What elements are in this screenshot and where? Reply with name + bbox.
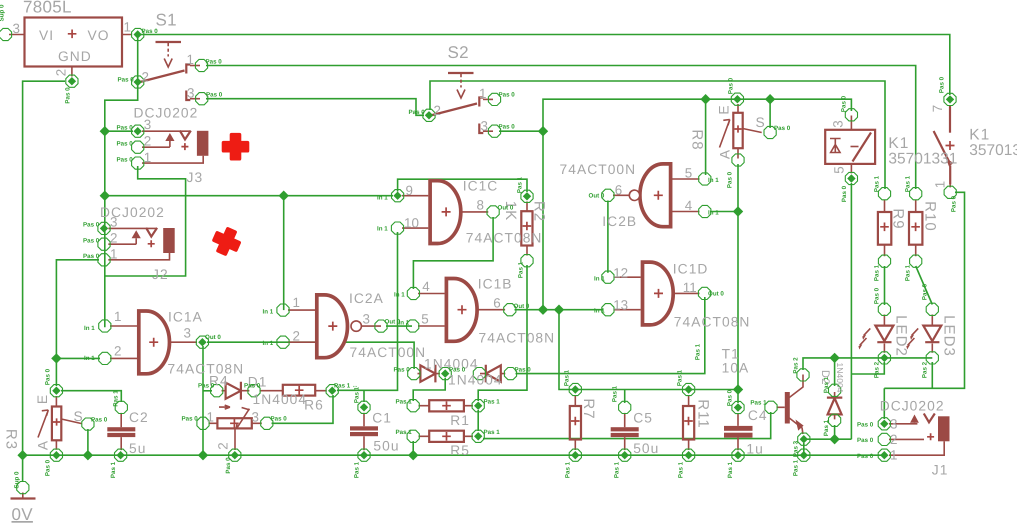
voltage regulator U 7805L box (9, 18, 132, 77)
wire IC1A out to IC2A pin2 and D3 (207, 342, 414, 369)
svg-text:J3: J3 (187, 170, 204, 185)
svg-text:J2: J2 (152, 267, 169, 282)
pad D4 right (504, 368, 516, 380)
relay K1 switch contact (934, 106, 955, 188)
pad LED3 bottom (926, 352, 938, 364)
pad R8 top (731, 93, 743, 105)
wire R8 A pad down to C4 (737, 164, 739, 403)
wire LED2 bottom jog to relay coil column (851, 362, 884, 374)
wire ground rail 0V (23, 454, 885, 456)
svg-text:Pas 0: Pas 0 (922, 283, 929, 300)
pad relay K1 pin5 (845, 172, 857, 184)
svg-text:Pas 1: Pas 1 (518, 261, 525, 278)
pad J1 pin3 (878, 418, 890, 430)
switch S2 (431, 73, 494, 133)
svg-text:Pas 0: Pas 0 (65, 87, 72, 104)
svg-text:3: 3 (831, 120, 846, 127)
svg-text:A: A (36, 440, 51, 450)
svg-text:Pas 1: Pas 1 (564, 369, 571, 386)
svg-text:Pas 0: Pas 0 (857, 437, 874, 444)
svg-text:1: 1 (293, 295, 300, 310)
svg-text:2: 2 (114, 344, 121, 359)
svg-text:In 1: In 1 (84, 325, 95, 332)
svg-text:R3: R3 (3, 429, 20, 450)
svg-text:R2: R2 (531, 201, 548, 222)
svg-text:3: 3 (187, 86, 194, 101)
error cross marker 2 (211, 226, 243, 258)
pad K1 switch pin7 (944, 93, 956, 105)
wire emitter down to rail (803, 443, 805, 455)
svg-text:Out 0: Out 0 (589, 193, 605, 200)
svg-text:Pas 2: Pas 2 (922, 361, 929, 378)
junction R3 E column (51, 353, 61, 363)
svg-text:In 1: In 1 (377, 195, 388, 202)
svg-text:4: 4 (685, 198, 693, 213)
trimmer R3 (38, 396, 82, 450)
pad R4 pin2 (229, 449, 241, 461)
and gate IC1A (110, 311, 197, 374)
diode D4 1N4004 mirrored (480, 365, 505, 383)
svg-text:Pas 1: Pas 1 (677, 369, 684, 386)
svg-text:K1: K1 (888, 135, 909, 152)
pad IC1B in5 (407, 320, 419, 332)
error cross marker 1 (224, 135, 248, 159)
wire drop to C5 top (624, 390, 626, 404)
svg-text:Pas 1: Pas 1 (750, 400, 767, 407)
pad T1 emitter rail (798, 449, 810, 461)
pad S2 pin2 (423, 109, 435, 121)
pad R4 pin3 (261, 417, 273, 429)
wire C1 top tee (363, 390, 365, 402)
pad S2 pin3 (488, 125, 500, 137)
svg-text:13: 13 (613, 298, 628, 313)
svg-text:In 1: In 1 (708, 177, 719, 184)
svg-text:50u: 50u (373, 439, 399, 454)
svg-text:Pas 1: Pas 1 (874, 264, 881, 281)
svg-text:R9: R9 (890, 208, 907, 229)
svg-text:1: 1 (890, 448, 897, 463)
svg-text:Pas 0: Pas 0 (939, 76, 946, 93)
wire x559 down to R7 C5 R11 run (559, 310, 738, 390)
svg-text:Pas 1: Pas 1 (793, 459, 800, 476)
transistor T1 (777, 375, 804, 435)
svg-text:5: 5 (685, 166, 692, 181)
pad R1 right (472, 400, 484, 412)
svg-text:74ACT08N: 74ACT08N (466, 231, 543, 246)
svg-text:Sup 0: Sup 0 (14, 471, 21, 488)
wire D4 right to IC1D pin11 column (516, 297, 705, 374)
svg-text:3: 3 (890, 417, 897, 432)
svg-text:S1: S1 (156, 11, 177, 30)
svg-text:S: S (74, 409, 84, 424)
pad IC1D out11 (698, 287, 710, 299)
svg-text:1: 1 (110, 247, 117, 262)
svg-text:74ACT08N: 74ACT08N (674, 315, 751, 330)
svg-text:Pas 0: Pas 0 (45, 368, 52, 385)
resistor R2 1K vertical (521, 202, 532, 256)
svg-text:Pas 0: Pas 0 (951, 195, 958, 212)
svg-text:R1: R1 (450, 413, 470, 428)
pad D2 bottom (829, 414, 841, 426)
junction R5 left rail (408, 450, 418, 460)
svg-text:Pas 2: Pas 2 (874, 361, 881, 378)
wire LED3 bottom down to J1 net (931, 362, 933, 388)
wire S1 pin2 down-left to x104 column (105, 84, 138, 327)
pad 7805 pin3 (0, 28, 12, 40)
svg-text:In 1: In 1 (263, 309, 274, 316)
pad D3 cathode (439, 368, 451, 380)
junction R8 S top (765, 94, 775, 104)
svg-text:Pas 0: Pas 0 (83, 222, 100, 229)
pad S1 pin3 (196, 93, 208, 105)
wire branch down to IC2A pin1 (283, 196, 285, 310)
wire J1 pin3 net horizontal (884, 192, 964, 388)
resistor R9 (878, 200, 891, 257)
svg-text:Pas 0: Pas 0 (409, 109, 426, 116)
svg-text:3: 3 (363, 312, 370, 327)
wire R5 left down to rail (412, 441, 414, 455)
dc jack J1 DCJ0202 (889, 414, 950, 456)
pad R1 left (407, 400, 419, 412)
pad J1 pin2 (878, 433, 890, 445)
svg-text:3: 3 (184, 326, 191, 341)
junction x559 branch (554, 305, 564, 315)
pad IC1C in9 (392, 190, 404, 202)
svg-text:74ACT08N: 74ACT08N (479, 331, 556, 346)
svg-text:Pas 0: Pas 0 (499, 92, 516, 99)
junction IC2A pin1 branch (279, 191, 289, 201)
dc jack J2 DCJ0202 (108, 228, 174, 260)
pad relay K1 pin3 (845, 109, 857, 121)
svg-text:Pas 1: Pas 1 (727, 461, 734, 478)
svg-text:J1: J1 (932, 463, 949, 478)
capacitor C5 50u (611, 413, 639, 450)
svg-text:5: 5 (421, 312, 428, 327)
wire R9 bottom to LED2 top (884, 266, 886, 305)
svg-text:R5: R5 (450, 443, 470, 458)
diode D1 1N4004 (222, 382, 250, 400)
pad IC1C out8 (487, 206, 499, 218)
ground symbol 0V (11, 493, 36, 499)
svg-text:Pas 0: Pas 0 (91, 417, 108, 424)
pad IC2A in2 (277, 336, 289, 348)
wire D2 top from collector junction (834, 358, 836, 386)
resistor R1 (419, 400, 473, 411)
svg-text:IC2B: IC2B (602, 214, 637, 229)
svg-text:3: 3 (144, 117, 151, 132)
svg-text:2: 2 (110, 231, 117, 246)
svg-text:E: E (717, 104, 732, 114)
wire R10 bottom to LED3 top diagonal (916, 266, 933, 305)
pad D3 anode (408, 368, 420, 380)
svg-text:K1: K1 (969, 127, 990, 144)
svg-text:IC2A: IC2A (349, 291, 384, 306)
nand gate IC2A (288, 295, 381, 358)
wire D3 cathode mid down to R1 left (413, 378, 445, 401)
dc jack J3 DCJ0202 (142, 131, 208, 164)
pad R2 top (521, 190, 533, 202)
pad C4 top (732, 401, 744, 413)
diode D3 1N4004 (418, 365, 440, 383)
pad C2 top (115, 401, 127, 413)
svg-text:1: 1 (207, 410, 214, 425)
svg-text:35701331: 35701331 (888, 151, 957, 168)
pad LED2 bottom (878, 352, 890, 364)
pad T1 emitter (798, 433, 810, 445)
svg-text:GND: GND (58, 49, 92, 64)
svg-text:3: 3 (252, 410, 259, 425)
svg-text:1: 1 (114, 309, 121, 324)
svg-text:C2: C2 (129, 410, 149, 425)
pad IC1D in13 (602, 304, 614, 316)
svg-text:Pas 0: Pas 0 (45, 459, 52, 476)
svg-text:Pas 1: Pas 1 (905, 264, 912, 281)
svg-text:Pas 0: Pas 0 (499, 124, 516, 131)
capacitor C1 50u (350, 413, 378, 450)
pad IC2B in5 (699, 173, 711, 185)
wire net A: x104 to IC1C pin9 (105, 195, 393, 197)
pad R9 bottom (878, 255, 890, 267)
svg-text:3: 3 (13, 21, 20, 36)
junction rail left (17, 450, 27, 460)
pad IC1A in1 (99, 320, 111, 332)
svg-text:Pas 1: Pas 1 (517, 176, 524, 193)
pad R3 E (50, 385, 62, 397)
svg-text:Pas 1: Pas 1 (484, 399, 501, 406)
pad R11 top (683, 383, 695, 395)
svg-text:LED3: LED3 (941, 315, 958, 357)
svg-text:Pas 0: Pas 0 (394, 367, 411, 374)
pad C5 bottom (619, 449, 631, 461)
svg-text:Pas 1: Pas 1 (354, 461, 361, 478)
svg-text:Out 0: Out 0 (708, 291, 724, 298)
pad R11 bottom (683, 449, 695, 461)
pad T1 collector (797, 369, 809, 381)
relay K1 coil (825, 116, 875, 174)
svg-text:A: A (718, 149, 733, 159)
svg-text:Pas 0: Pas 0 (198, 383, 215, 390)
resistor R7 (570, 396, 581, 451)
svg-text:10: 10 (404, 216, 419, 231)
svg-text:In 1: In 1 (84, 355, 95, 362)
wire mid column x543 vertical (543, 99, 851, 310)
svg-text:2: 2 (890, 432, 897, 447)
pad R8 S (764, 126, 776, 138)
svg-text:Pas 0: Pas 0 (857, 422, 874, 429)
wire R3 S down to rail (87, 429, 89, 455)
pad R10 bottom (910, 255, 922, 267)
svg-text:Pas 0: Pas 0 (857, 453, 874, 460)
junction S2 pin3 column (538, 126, 548, 136)
svg-text:Pas 0: Pas 0 (83, 253, 100, 260)
svg-text:74ACT00N: 74ACT00N (350, 345, 427, 360)
svg-text:1: 1 (124, 20, 131, 35)
resistor R5 (419, 431, 473, 442)
svg-text:Pas 0: Pas 0 (206, 59, 223, 66)
svg-text:8: 8 (477, 198, 484, 213)
svg-text:6: 6 (615, 183, 622, 198)
wire IC2B pin4 to x738 junction (710, 211, 738, 213)
pad C5 top (619, 401, 631, 413)
pad T1 base (765, 401, 777, 413)
svg-text:IC1D: IC1D (673, 262, 709, 277)
svg-text:E: E (35, 394, 50, 404)
pad R9 top (878, 188, 890, 200)
svg-text:Pas 0: Pas 0 (117, 125, 134, 132)
svg-text:Pas 1: Pas 1 (612, 385, 619, 402)
svg-text:Pas 0: Pas 0 (727, 389, 734, 406)
pad R6 right (326, 385, 338, 397)
resistor R10 (909, 200, 922, 257)
svg-text:Pas 0: Pas 0 (117, 157, 134, 164)
svg-text:Pas 0: Pas 0 (271, 416, 288, 423)
svg-text:2: 2 (434, 103, 441, 118)
svg-text:Pas 0: Pas 0 (449, 367, 466, 374)
svg-text:In 1: In 1 (708, 210, 719, 217)
svg-text:DCJ0202: DCJ0202 (880, 399, 945, 414)
svg-text:Pas 0: Pas 0 (244, 383, 261, 390)
junction IC1B out column (538, 305, 548, 315)
svg-text:Pas 0: Pas 0 (117, 141, 134, 148)
svg-text:10A: 10A (722, 361, 750, 376)
svg-text:Pas 0: Pas 0 (83, 238, 100, 245)
resistor R11 (683, 396, 694, 451)
wire R1 right to R5 right (477, 410, 479, 431)
svg-text:Pas 1: Pas 1 (113, 390, 120, 407)
led LED3 (906, 315, 941, 353)
svg-text:1: 1 (187, 52, 194, 67)
svg-text:LED2: LED2 (893, 315, 910, 357)
pad R8 A (732, 154, 744, 166)
svg-text:2: 2 (54, 69, 69, 76)
svg-text:2: 2 (216, 442, 231, 449)
trimmer R4 horizontal (209, 405, 262, 450)
pad IC1A out3 (196, 336, 208, 348)
pad R4 pin1 (197, 417, 209, 429)
pad R7 top (569, 383, 581, 395)
junction R3 S rail (83, 450, 93, 460)
pad 7805 pin2 (66, 75, 78, 87)
wire R2 top to IC1C pin9 (398, 179, 527, 192)
svg-text:IC1C: IC1C (463, 179, 499, 194)
svg-text:Out 0: Out 0 (205, 334, 221, 341)
pad D4 left (473, 368, 485, 380)
resistor R6 (260, 385, 327, 396)
svg-text:Pas 1: Pas 1 (678, 461, 685, 478)
pad IC1A in2 (99, 352, 111, 364)
svg-text:5u: 5u (129, 441, 146, 456)
wire R3 E junction right to IC1A pin2 (56, 357, 100, 359)
junction D2 bottom emitter row (829, 434, 839, 444)
wire IC2A out to IC1B pin5 (386, 325, 412, 327)
svg-text:Out 0: Out 0 (514, 303, 530, 310)
svg-text:50u: 50u (633, 441, 659, 456)
svg-text:Pas 0: Pas 0 (841, 95, 848, 112)
svg-text:IC1A: IC1A (168, 310, 203, 325)
pad J3 pin3 (132, 125, 144, 137)
junction IC2B pin4 x738 (733, 206, 743, 216)
pad R5 left (407, 430, 419, 442)
and gate IC1B (418, 279, 505, 342)
svg-text:3: 3 (481, 119, 488, 134)
pad J2 pin2 (98, 238, 110, 250)
svg-text:5: 5 (832, 166, 847, 173)
and gate IC1D (614, 262, 700, 325)
wire 7805 VO to S1 pin2 (137, 36, 139, 80)
wire net from S1 pin1 to R10 top (206, 66, 916, 190)
pad C2 bottom (115, 449, 127, 461)
pad D2 top (829, 384, 841, 396)
wire emitter row (804, 438, 852, 440)
svg-text:74ACT08N: 74ACT08N (168, 362, 245, 377)
pad R5 right (472, 430, 484, 442)
wire D2 bottom to emitter row (834, 425, 836, 439)
svg-text:Pas 1: Pas 1 (823, 419, 830, 436)
svg-text:Pas 0: Pas 0 (728, 77, 735, 94)
svg-text:Pas 0: Pas 0 (118, 77, 135, 84)
svg-text:Pas 0: Pas 0 (841, 185, 848, 202)
pad IC2B in4 (699, 205, 711, 217)
pad IC1C in10 (391, 222, 403, 234)
svg-text:VO: VO (88, 28, 110, 43)
pad R2 bottom (521, 255, 533, 267)
svg-text:In 1: In 1 (263, 340, 274, 347)
pad C1 top (358, 401, 370, 413)
svg-text:R7: R7 (580, 398, 597, 419)
wire net VIN top rail from 7805 VO to K1 pin7 (138, 35, 950, 96)
wire S2 pin2 up and right to R9 top (430, 81, 885, 189)
wire T1 collector to LED2 bottom (803, 358, 932, 370)
svg-text:1N4004: 1N4004 (835, 362, 845, 392)
wire S1 pin3 to S2 pin2 (206, 99, 424, 116)
capacitor C4 1u (724, 413, 753, 450)
junction IC2B pin5 top (700, 94, 710, 104)
nand gate IC2B mirrored (613, 164, 700, 227)
svg-text:12: 12 (613, 266, 628, 281)
svg-text:In 1: In 1 (394, 292, 405, 299)
wire T1 base net from R5 right (483, 412, 771, 439)
pad J1 pin1 (878, 449, 890, 461)
pad IC1B in4 (407, 287, 419, 299)
svg-text:Pas 1: Pas 1 (823, 376, 830, 393)
pad LED3 top (926, 303, 938, 315)
svg-text:0V: 0V (12, 505, 34, 523)
svg-text:Pas 1: Pas 1 (565, 461, 572, 478)
svg-text:3: 3 (110, 215, 117, 230)
pad R3 S (82, 418, 94, 430)
led LED2 (858, 315, 893, 353)
wire IC1A out down to rail, R4 pin1 (202, 346, 204, 455)
svg-text:Pas 0: Pas 0 (727, 171, 734, 188)
wire R3 E to C2 top (61, 391, 121, 402)
svg-text:In 1: In 1 (399, 320, 410, 327)
svg-text:9: 9 (406, 183, 413, 198)
diode D2 1N4004 vertical (827, 392, 842, 419)
svg-text:2: 2 (144, 134, 151, 149)
wire R4 pin3 right and up to R6 right (272, 395, 334, 423)
and gate IC1C (402, 181, 488, 244)
pad J2 pin3 (98, 222, 110, 234)
svg-text:Pas 1: Pas 1 (874, 175, 881, 192)
pad 7805 pin1 (132, 28, 144, 40)
wire jog to D1 anode (203, 390, 212, 392)
wire J2 pin1 left to R3 E column (56, 260, 99, 386)
svg-text:R6: R6 (304, 398, 324, 413)
pad K1 switch pin1 (944, 186, 956, 198)
svg-text:C4: C4 (748, 408, 768, 423)
svg-text:S: S (756, 115, 766, 130)
pad ground 0V (17, 482, 29, 494)
